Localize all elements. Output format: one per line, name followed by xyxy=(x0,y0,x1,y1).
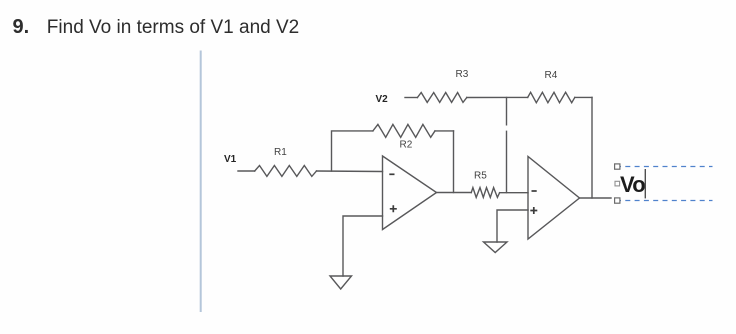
wire R4 right vertical down to output xyxy=(591,97,593,198)
resistor R4 xyxy=(528,92,575,102)
svg-text:R4: R4 xyxy=(545,70,558,81)
op1 plus sign xyxy=(390,205,397,212)
wire op2 noninverting input xyxy=(497,210,528,242)
wire R4 to output corner xyxy=(575,96,592,98)
wire junction R3R4 down to op2 inverting node (upper segment) xyxy=(506,98,508,125)
node V1 lead wire xyxy=(238,170,255,172)
op2 minus sign xyxy=(532,190,537,192)
selection handle middle-left xyxy=(615,181,620,186)
wire op1 noninverting input xyxy=(343,216,383,276)
svg-text:Vo: Vo xyxy=(620,172,645,197)
wire feedback right vertical down to op1 output xyxy=(453,131,455,193)
svg-text:9.: 9. xyxy=(13,16,30,38)
svg-text:R5: R5 xyxy=(474,171,487,182)
ground (op2 + input) xyxy=(484,242,508,253)
resistor R3 xyxy=(417,93,466,103)
wire R5 to op2 inverting input xyxy=(500,192,528,194)
op1 minus sign xyxy=(389,173,394,175)
textbox bottom dashed border xyxy=(616,200,713,202)
node V2 lead wire xyxy=(405,97,417,99)
svg-text:V2: V2 xyxy=(376,94,389,105)
wire op2 output to Vo xyxy=(580,197,612,199)
left margin rule xyxy=(200,51,202,313)
svg-text:R2: R2 xyxy=(400,140,413,151)
svg-text:R3: R3 xyxy=(456,69,469,80)
op-amp U1 xyxy=(383,156,437,230)
op2 plus sign xyxy=(530,207,537,214)
wire R3 to R4 xyxy=(467,96,528,98)
op-amp U2 xyxy=(528,157,580,240)
resistor R5 xyxy=(471,188,499,198)
svg-text:Find Vo in terms of V1 and V2: Find Vo in terms of V1 and V2 xyxy=(47,17,299,38)
ground (op1 + input) xyxy=(330,276,352,289)
svg-text:V1: V1 xyxy=(224,154,237,165)
wire R1 to op1 inverting input xyxy=(317,170,383,173)
resistor R1 xyxy=(255,166,317,177)
selection handle top-left xyxy=(615,164,620,169)
wire op1 output xyxy=(437,192,472,194)
wire junction R3R4 down to op2 inverting node (lower segment after hop gap) xyxy=(506,131,508,192)
wire node A up to feedback xyxy=(332,131,373,171)
textbox top dashed border xyxy=(616,166,713,168)
svg-text:R1: R1 xyxy=(274,147,287,158)
selection handle bottom-left xyxy=(615,198,620,203)
resistor R2 xyxy=(373,124,435,137)
wire R2 to right corner xyxy=(435,130,454,132)
text cursor xyxy=(644,169,646,198)
